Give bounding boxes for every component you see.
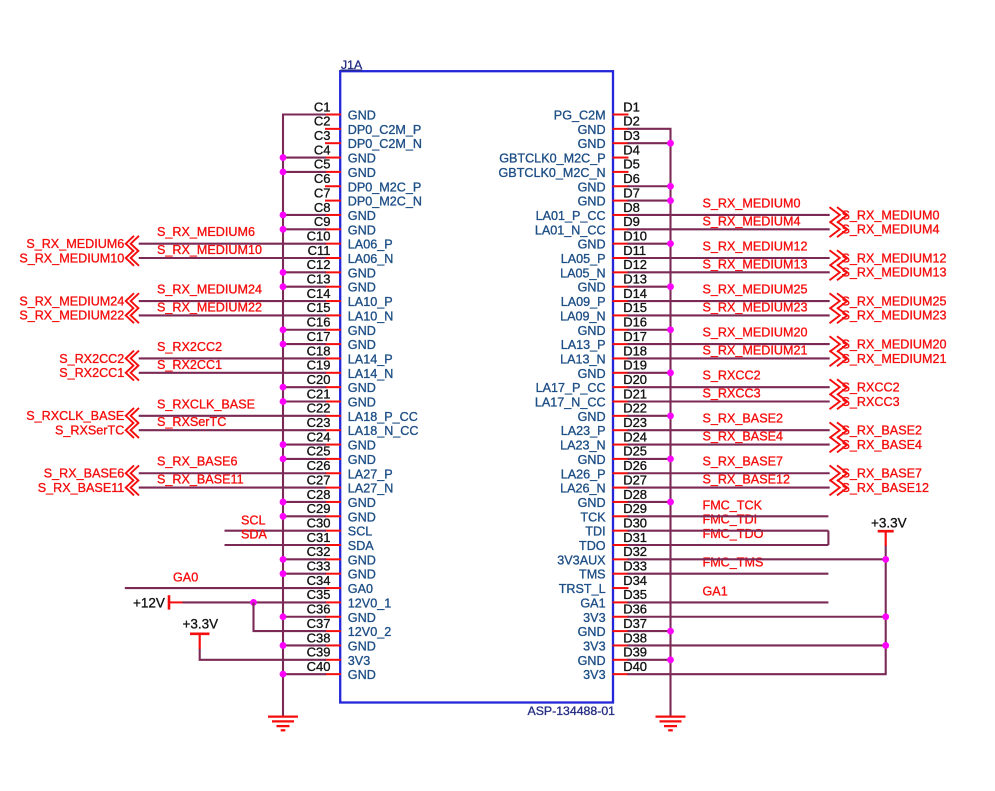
wire GND to pin C13 [282, 286, 326, 288]
pin D40 [583, 659, 647, 682]
svg-text:LA06_N: LA06_N [348, 252, 394, 266]
connector J1A body [340, 71, 613, 702]
svg-text:LA09_P: LA09_P [561, 295, 606, 309]
junction at C25 GND bus [280, 456, 287, 463]
svg-text:S_RX_BASE12: S_RX_BASE12 [842, 481, 930, 495]
wire GND to pin C8 [282, 214, 326, 216]
svg-text:FMC_TDO: FMC_TDO [703, 527, 764, 541]
svg-text:D18: D18 [623, 343, 647, 358]
svg-text:D5: D5 [623, 157, 640, 172]
junction at D16 GND bus [667, 326, 674, 333]
svg-text:GA0: GA0 [173, 571, 198, 585]
wire GND to pin D22 [628, 415, 672, 417]
svg-text:ASP-134488-01: ASP-134488-01 [528, 704, 616, 718]
svg-text:DP0_M2C_N: DP0_M2C_N [348, 195, 422, 209]
wire net S_RX_MEDIUM20 to pin D17 [628, 343, 830, 345]
svg-text:D26: D26 [623, 458, 647, 473]
svg-text:S_RX_MEDIUM22: S_RX_MEDIUM22 [19, 309, 124, 323]
pin D21 [535, 386, 647, 409]
wire GND to pin D16 [628, 329, 672, 331]
junction at C21 GND bus [280, 398, 287, 405]
svg-text:GND: GND [578, 238, 606, 252]
svg-text:D14: D14 [623, 286, 647, 301]
svg-text:S_RX_BASE4: S_RX_BASE4 [703, 430, 784, 444]
wire net FMC_TDO from pin D31 [628, 544, 829, 546]
svg-text:C36: C36 [307, 602, 331, 617]
pin C36 [307, 602, 376, 625]
svg-text:LA23_P: LA23_P [561, 424, 606, 438]
svg-text:GND: GND [348, 281, 376, 295]
svg-text:D15: D15 [623, 300, 647, 315]
svg-text:C19: C19 [307, 358, 331, 373]
pin C7 [314, 185, 422, 208]
svg-text:S_RX_BASE7: S_RX_BASE7 [842, 467, 923, 481]
ground symbol right [656, 717, 686, 731]
svg-text:S_RX_MEDIUM13: S_RX_MEDIUM13 [703, 257, 808, 271]
svg-text:GND: GND [578, 625, 606, 639]
off-page connector S_RX_MEDIUM22 [19, 308, 139, 324]
svg-text:GND: GND [348, 381, 376, 395]
off-page connector S_RX_MEDIUM6 [26, 236, 139, 252]
svg-text:S_RX_BASE11: S_RX_BASE11 [38, 481, 125, 495]
svg-text:S_RX_BASE12: S_RX_BASE12 [703, 473, 791, 487]
svg-text:GBTCLK0_M2C_N: GBTCLK0_M2C_N [499, 166, 606, 180]
wire GND to pin D13 [628, 286, 672, 288]
pin D8 [536, 200, 640, 223]
pin C9 [314, 214, 376, 237]
junction at C20 GND bus [280, 384, 287, 391]
wire net S_RX_MEDIUM24 to pin C14 [139, 300, 326, 302]
svg-text:C33: C33 [307, 559, 331, 574]
wire GND to pin D3 [628, 142, 672, 144]
svg-text:GND: GND [348, 109, 376, 123]
svg-text:D16: D16 [623, 315, 647, 330]
junction at C33 GND bus [280, 570, 287, 577]
svg-text:S_RX_MEDIUM21: S_RX_MEDIUM21 [703, 343, 808, 357]
svg-text:D10: D10 [623, 228, 647, 243]
svg-text:S_RX_MEDIUM4: S_RX_MEDIUM4 [842, 223, 940, 237]
off-page connector S_RX_MEDIUM21 [830, 351, 947, 367]
wire net 3V3 pin D32 [628, 558, 887, 560]
pin C35 [307, 587, 392, 610]
pin C24 [307, 429, 376, 452]
pin D28 [578, 487, 647, 510]
svg-text:GND: GND [348, 639, 376, 653]
svg-text:GND: GND [348, 223, 376, 237]
net label S_RX_MEDIUM10 [157, 243, 262, 257]
net label S_RX_MEDIUM25 [703, 282, 808, 296]
svg-text:GND: GND [578, 410, 606, 424]
pin C28 [307, 487, 376, 510]
wire GND to pin D6 [628, 185, 672, 187]
svg-text:LA17_P_CC: LA17_P_CC [536, 381, 606, 395]
svg-text:GND: GND [578, 324, 606, 338]
pin D17 [561, 329, 647, 352]
svg-text:C37: C37 [307, 616, 331, 631]
svg-text:SDA: SDA [241, 528, 267, 542]
svg-text:S_RX2CC2: S_RX2CC2 [157, 340, 222, 354]
svg-text:D36: D36 [623, 602, 647, 617]
pin C18 [307, 343, 393, 366]
pin D31 [579, 530, 647, 553]
svg-text:S_RX_MEDIUM12: S_RX_MEDIUM12 [842, 251, 947, 265]
wire net S_RX_MEDIUM22 to pin C15 [139, 314, 326, 316]
svg-text:D29: D29 [623, 501, 647, 516]
svg-text:PG_C2M: PG_C2M [554, 109, 606, 123]
svg-text:D33: D33 [623, 559, 647, 574]
power symbol +3.3V left [183, 616, 219, 649]
svg-text:D40: D40 [623, 659, 647, 674]
wire net FMC_TMS from pin D33 [628, 573, 829, 575]
junction at D38 +3.3V bus [882, 642, 889, 649]
net label S_RX_BASE4 [703, 430, 784, 444]
wire TDO loop vertical segment [827, 531, 829, 545]
svg-text:S_RX_MEDIUM0: S_RX_MEDIUM0 [703, 196, 801, 210]
svg-text:D4: D4 [623, 142, 640, 157]
wire net 3V3 pin D38 [628, 644, 887, 646]
off-page connector S_RX_MEDIUM10 [19, 250, 139, 266]
pin C39 [307, 645, 371, 668]
junction at C29 GND bus [280, 513, 287, 520]
net label S_RX_MEDIUM6 [157, 225, 255, 239]
wire GND to pin D39 [628, 659, 672, 661]
wire GND to pin C28 [282, 501, 326, 503]
svg-text:S_RX_MEDIUM24: S_RX_MEDIUM24 [157, 282, 262, 296]
wire net S_RX2CC2 to pin C18 [139, 357, 326, 359]
junction at D3 GND bus [667, 140, 674, 147]
svg-text:S_RX_BASE6: S_RX_BASE6 [157, 455, 238, 469]
svg-text:C27: C27 [307, 472, 331, 487]
svg-text:C7: C7 [314, 185, 331, 200]
pin D12 [560, 257, 647, 280]
pin C16 [307, 315, 376, 338]
off-page connector S_RXCC2 [830, 379, 900, 395]
wire GND to pin C33 [282, 573, 326, 575]
pin D23 [561, 415, 647, 438]
svg-text:D24: D24 [623, 429, 647, 444]
svg-text:S_RX_BASE2: S_RX_BASE2 [703, 412, 784, 426]
wire net S_RX_MEDIUM12 to pin D11 [628, 257, 830, 259]
svg-text:C30: C30 [307, 515, 331, 530]
net label FMC_TCK [703, 498, 763, 512]
pin D22 [578, 401, 647, 424]
wire GND to pin D10 [628, 243, 672, 245]
svg-text:S_RXCC3: S_RXCC3 [842, 395, 900, 409]
pin C12 [307, 257, 376, 280]
pin D36 [583, 602, 647, 625]
svg-text:C2: C2 [314, 114, 331, 129]
pin D26 [561, 458, 647, 481]
wire net S_RX_MEDIUM6 to pin C10 [139, 243, 326, 245]
pin C29 [307, 501, 376, 524]
svg-text:D8: D8 [623, 200, 640, 215]
svg-text:C16: C16 [307, 315, 331, 330]
pin C1 [314, 99, 376, 122]
junction at D13 GND bus [667, 283, 674, 290]
pin C23 [307, 415, 419, 438]
wire GND to pin C29 [282, 515, 326, 517]
junction at D22 GND bus [667, 412, 674, 419]
svg-text:D31: D31 [623, 530, 647, 545]
pin C4 [314, 142, 376, 165]
svg-text:S_RX_MEDIUM23: S_RX_MEDIUM23 [842, 309, 947, 323]
junction at C12 GND bus [280, 269, 287, 276]
svg-text:GND: GND [348, 453, 376, 467]
wire net 3V3 pin D36 [628, 616, 887, 618]
svg-text:C13: C13 [307, 272, 331, 287]
wire net S_RX_MEDIUM13 to pin D12 [628, 271, 830, 273]
svg-text:D22: D22 [623, 401, 647, 416]
pin C37 [307, 616, 392, 639]
pin C3 [314, 128, 422, 151]
svg-text:DP0_M2C_P: DP0_M2C_P [348, 180, 422, 194]
pin C34 [307, 573, 373, 596]
wire net S_RXSerTC to pin C23 [139, 429, 326, 431]
svg-text:FMC_TDI: FMC_TDI [703, 513, 758, 527]
svg-text:D20: D20 [623, 372, 647, 387]
svg-text:C12: C12 [307, 257, 331, 272]
net label FMC_TDI [703, 513, 758, 527]
svg-text:C11: C11 [308, 243, 331, 258]
wire net S_RX_MEDIUM4 to pin D9 [628, 228, 830, 230]
svg-text:GND: GND [578, 137, 606, 151]
svg-text:D30: D30 [623, 515, 647, 530]
power symbol +12V [133, 595, 183, 610]
svg-text:GND: GND [348, 324, 376, 338]
svg-text:GND: GND [348, 166, 376, 180]
svg-text:D1: D1 [623, 99, 640, 114]
wire net S_RX_BASE4 to pin D24 [628, 443, 830, 445]
wire GND to pin C4 [282, 157, 326, 159]
junction at D25 GND bus [667, 456, 674, 463]
svg-text:C5: C5 [314, 157, 331, 172]
wire GND to pin D19 [628, 372, 672, 374]
pin D29 [580, 501, 647, 524]
wire net S_RX_MEDIUM25 to pin D14 [628, 300, 830, 302]
reference designator J1A [340, 58, 363, 72]
pin D14 [561, 286, 647, 309]
svg-text:D34: D34 [623, 573, 647, 588]
pin C32 [307, 544, 376, 567]
svg-text:S_RX_MEDIUM20: S_RX_MEDIUM20 [703, 326, 808, 340]
wire GND to pin C17 [282, 343, 326, 345]
net label S_RX_MEDIUM20 [703, 326, 808, 340]
svg-text:C34: C34 [307, 573, 331, 588]
svg-text:C6: C6 [314, 171, 331, 186]
svg-text:C40: C40 [307, 659, 331, 674]
svg-text:LA10_N: LA10_N [348, 309, 394, 323]
svg-text:D13: D13 [623, 272, 647, 287]
pin D10 [578, 228, 647, 251]
wire net S_RX_BASE11 to pin C27 [139, 487, 326, 489]
svg-text:D23: D23 [623, 415, 647, 430]
svg-text:GND: GND [348, 510, 376, 524]
svg-text:D28: D28 [623, 487, 647, 502]
svg-text:TDI: TDI [585, 525, 605, 539]
net label S_RX_BASE7 [703, 455, 784, 469]
svg-text:C22: C22 [307, 401, 331, 416]
svg-text:LA05_P: LA05_P [561, 252, 606, 266]
svg-text:GND: GND [578, 123, 606, 137]
pin D9 [535, 214, 640, 237]
net label S_RX_MEDIUM24 [157, 282, 262, 296]
svg-text:GA0: GA0 [348, 582, 373, 596]
wire net S_RX_BASE12 to pin D27 [628, 487, 830, 489]
svg-text:D11: D11 [623, 243, 646, 258]
svg-text:C3: C3 [314, 128, 331, 143]
wire GND to pin D28 [628, 501, 672, 503]
net label S_RX2CC1 [157, 358, 222, 372]
svg-text:S_RX_BASE2: S_RX_BASE2 [842, 424, 923, 438]
pin C38 [307, 630, 376, 653]
junction at C36 GND bus [280, 613, 287, 620]
net label S_RX_BASE11 [157, 473, 244, 487]
off-page connector S_RX_MEDIUM20 [830, 336, 947, 352]
wire net 3V3 to pin C39 [200, 649, 326, 660]
svg-text:S_RXCC3: S_RXCC3 [703, 387, 761, 401]
off-page connector S_RX_MEDIUM4 [830, 222, 940, 238]
net label S_RX2CC2 [157, 340, 222, 354]
pin D11 [561, 243, 646, 266]
net label S_RX_MEDIUM12 [703, 239, 808, 253]
svg-text:SCL: SCL [348, 525, 373, 539]
svg-text:D19: D19 [623, 358, 647, 373]
svg-text:S_RX_MEDIUM0: S_RX_MEDIUM0 [842, 208, 940, 222]
pin D5 [499, 157, 640, 180]
net label S_RX_BASE2 [703, 412, 784, 426]
net label S_RX_BASE12 [703, 473, 791, 487]
net label S_RX_MEDIUM4 [703, 214, 801, 228]
off-page connector S_RX_BASE11 [38, 480, 139, 496]
net label S_RXCC2 [703, 369, 761, 383]
off-page connector S_RX2CC1 [59, 365, 139, 381]
svg-text:+3.3V: +3.3V [871, 516, 907, 531]
svg-text:DP0_C2M_P: DP0_C2M_P [348, 123, 422, 137]
svg-text:C25: C25 [307, 444, 331, 459]
pin D16 [578, 315, 647, 338]
junction at D6 GND bus [667, 183, 674, 190]
wire net SCL to pin C30 [225, 530, 327, 532]
svg-text:12V0_1: 12V0_1 [348, 596, 391, 610]
svg-text:LA27_N: LA27_N [348, 482, 394, 496]
svg-text:C1: C1 [314, 99, 331, 114]
wire net S_RX_MEDIUM23 to pin D15 [628, 314, 830, 316]
svg-text:C17: C17 [307, 329, 331, 344]
svg-text:LA14_N: LA14_N [348, 367, 394, 381]
junction at D10 GND bus [667, 240, 674, 247]
pin D4 [499, 142, 640, 165]
pin D19 [578, 358, 647, 381]
off-page connector S_RX_MEDIUM12 [830, 250, 947, 266]
net label SDA [241, 528, 267, 542]
svg-text:GND: GND [348, 611, 376, 625]
svg-text:C35: C35 [307, 587, 331, 602]
junction at C24 GND bus [280, 441, 287, 448]
pin C25 [307, 444, 376, 467]
svg-text:S_RX_MEDIUM25: S_RX_MEDIUM25 [703, 282, 808, 296]
off-page connector S_RX_MEDIUM0 [830, 207, 940, 223]
svg-text:GND: GND [348, 568, 376, 582]
svg-text:SDA: SDA [348, 539, 374, 553]
svg-text:S_RXSerTC: S_RXSerTC [157, 415, 226, 429]
svg-text:3V3: 3V3 [348, 654, 370, 668]
part number ASP-134488-01 [528, 704, 616, 718]
wire net S_RXCLK_BASE to pin C22 [139, 415, 326, 417]
svg-text:S_RX_BASE6: S_RX_BASE6 [44, 467, 125, 481]
pin C8 [314, 200, 376, 223]
svg-text:D9: D9 [623, 214, 640, 229]
svg-text:S_RX2CC1: S_RX2CC1 [59, 366, 124, 380]
svg-text:SCL: SCL [241, 513, 266, 527]
pin D27 [560, 472, 647, 495]
junction on +12V wire [250, 599, 257, 606]
ground symbol left [268, 717, 298, 731]
net label S_RXCC3 [703, 387, 761, 401]
svg-text:C15: C15 [307, 300, 331, 315]
wire GND to pin D2 [628, 128, 672, 130]
off-page connector S_RXCC3 [830, 394, 900, 410]
svg-text:LA26_P: LA26_P [561, 467, 606, 481]
pin D15 [560, 300, 647, 323]
svg-text:D27: D27 [623, 472, 647, 487]
svg-text:C32: C32 [307, 544, 331, 559]
power symbol +3.3V right [871, 516, 907, 546]
wire net S_RXCC2 to pin D20 [628, 386, 830, 388]
svg-text:TRST_L: TRST_L [559, 582, 606, 596]
svg-text:C23: C23 [307, 415, 331, 430]
junction at C32 GND bus [280, 556, 287, 563]
pin C40 [307, 659, 376, 682]
svg-text:C4: C4 [314, 142, 331, 157]
off-page connector S_RX_BASE4 [830, 437, 923, 453]
svg-text:S_RX_MEDIUM23: S_RX_MEDIUM23 [703, 300, 808, 314]
pin C22 [307, 401, 418, 424]
pin D34 [559, 573, 647, 596]
junction at D36 +3.3V bus [882, 613, 889, 620]
wire GND to pin C16 [282, 329, 326, 331]
wire GND to pin C21 [282, 400, 326, 402]
svg-text:S_RX_BASE7: S_RX_BASE7 [703, 455, 784, 469]
off-page connector S_RX2CC2 [59, 351, 139, 367]
svg-text:S_RX_MEDIUM25: S_RX_MEDIUM25 [842, 294, 947, 308]
svg-text:S_RX_MEDIUM10: S_RX_MEDIUM10 [19, 251, 124, 265]
svg-text:LA01_N_CC: LA01_N_CC [535, 223, 606, 237]
wire GND to pin C25 [282, 458, 326, 460]
wire GND to pin C5 [282, 171, 326, 173]
junction at D39 GND bus [667, 656, 674, 663]
pin D1 [554, 99, 640, 122]
svg-text:C38: C38 [307, 630, 331, 645]
net label S_RX_MEDIUM13 [703, 257, 808, 271]
wire GND to pin D37 [628, 630, 672, 632]
pin D20 [536, 372, 647, 395]
svg-text:3V3AUX: 3V3AUX [557, 553, 606, 567]
svg-text:C24: C24 [307, 429, 331, 444]
svg-text:GND: GND [348, 553, 376, 567]
svg-text:LA18_N_CC: LA18_N_CC [348, 424, 419, 438]
junction at C28 GND bus [280, 499, 287, 506]
junction at C16 GND bus [280, 326, 287, 333]
svg-text:LA13_P: LA13_P [561, 338, 606, 352]
pin C11 [308, 243, 394, 266]
svg-text:D37: D37 [623, 616, 647, 631]
svg-text:GND: GND [578, 654, 606, 668]
wire GND to pin C1 [282, 113, 326, 115]
junction at D32 +3.3V bus [882, 556, 889, 563]
pin D13 [578, 272, 647, 295]
net label S_RX_MEDIUM21 [703, 343, 808, 357]
svg-text:C18: C18 [307, 343, 331, 358]
